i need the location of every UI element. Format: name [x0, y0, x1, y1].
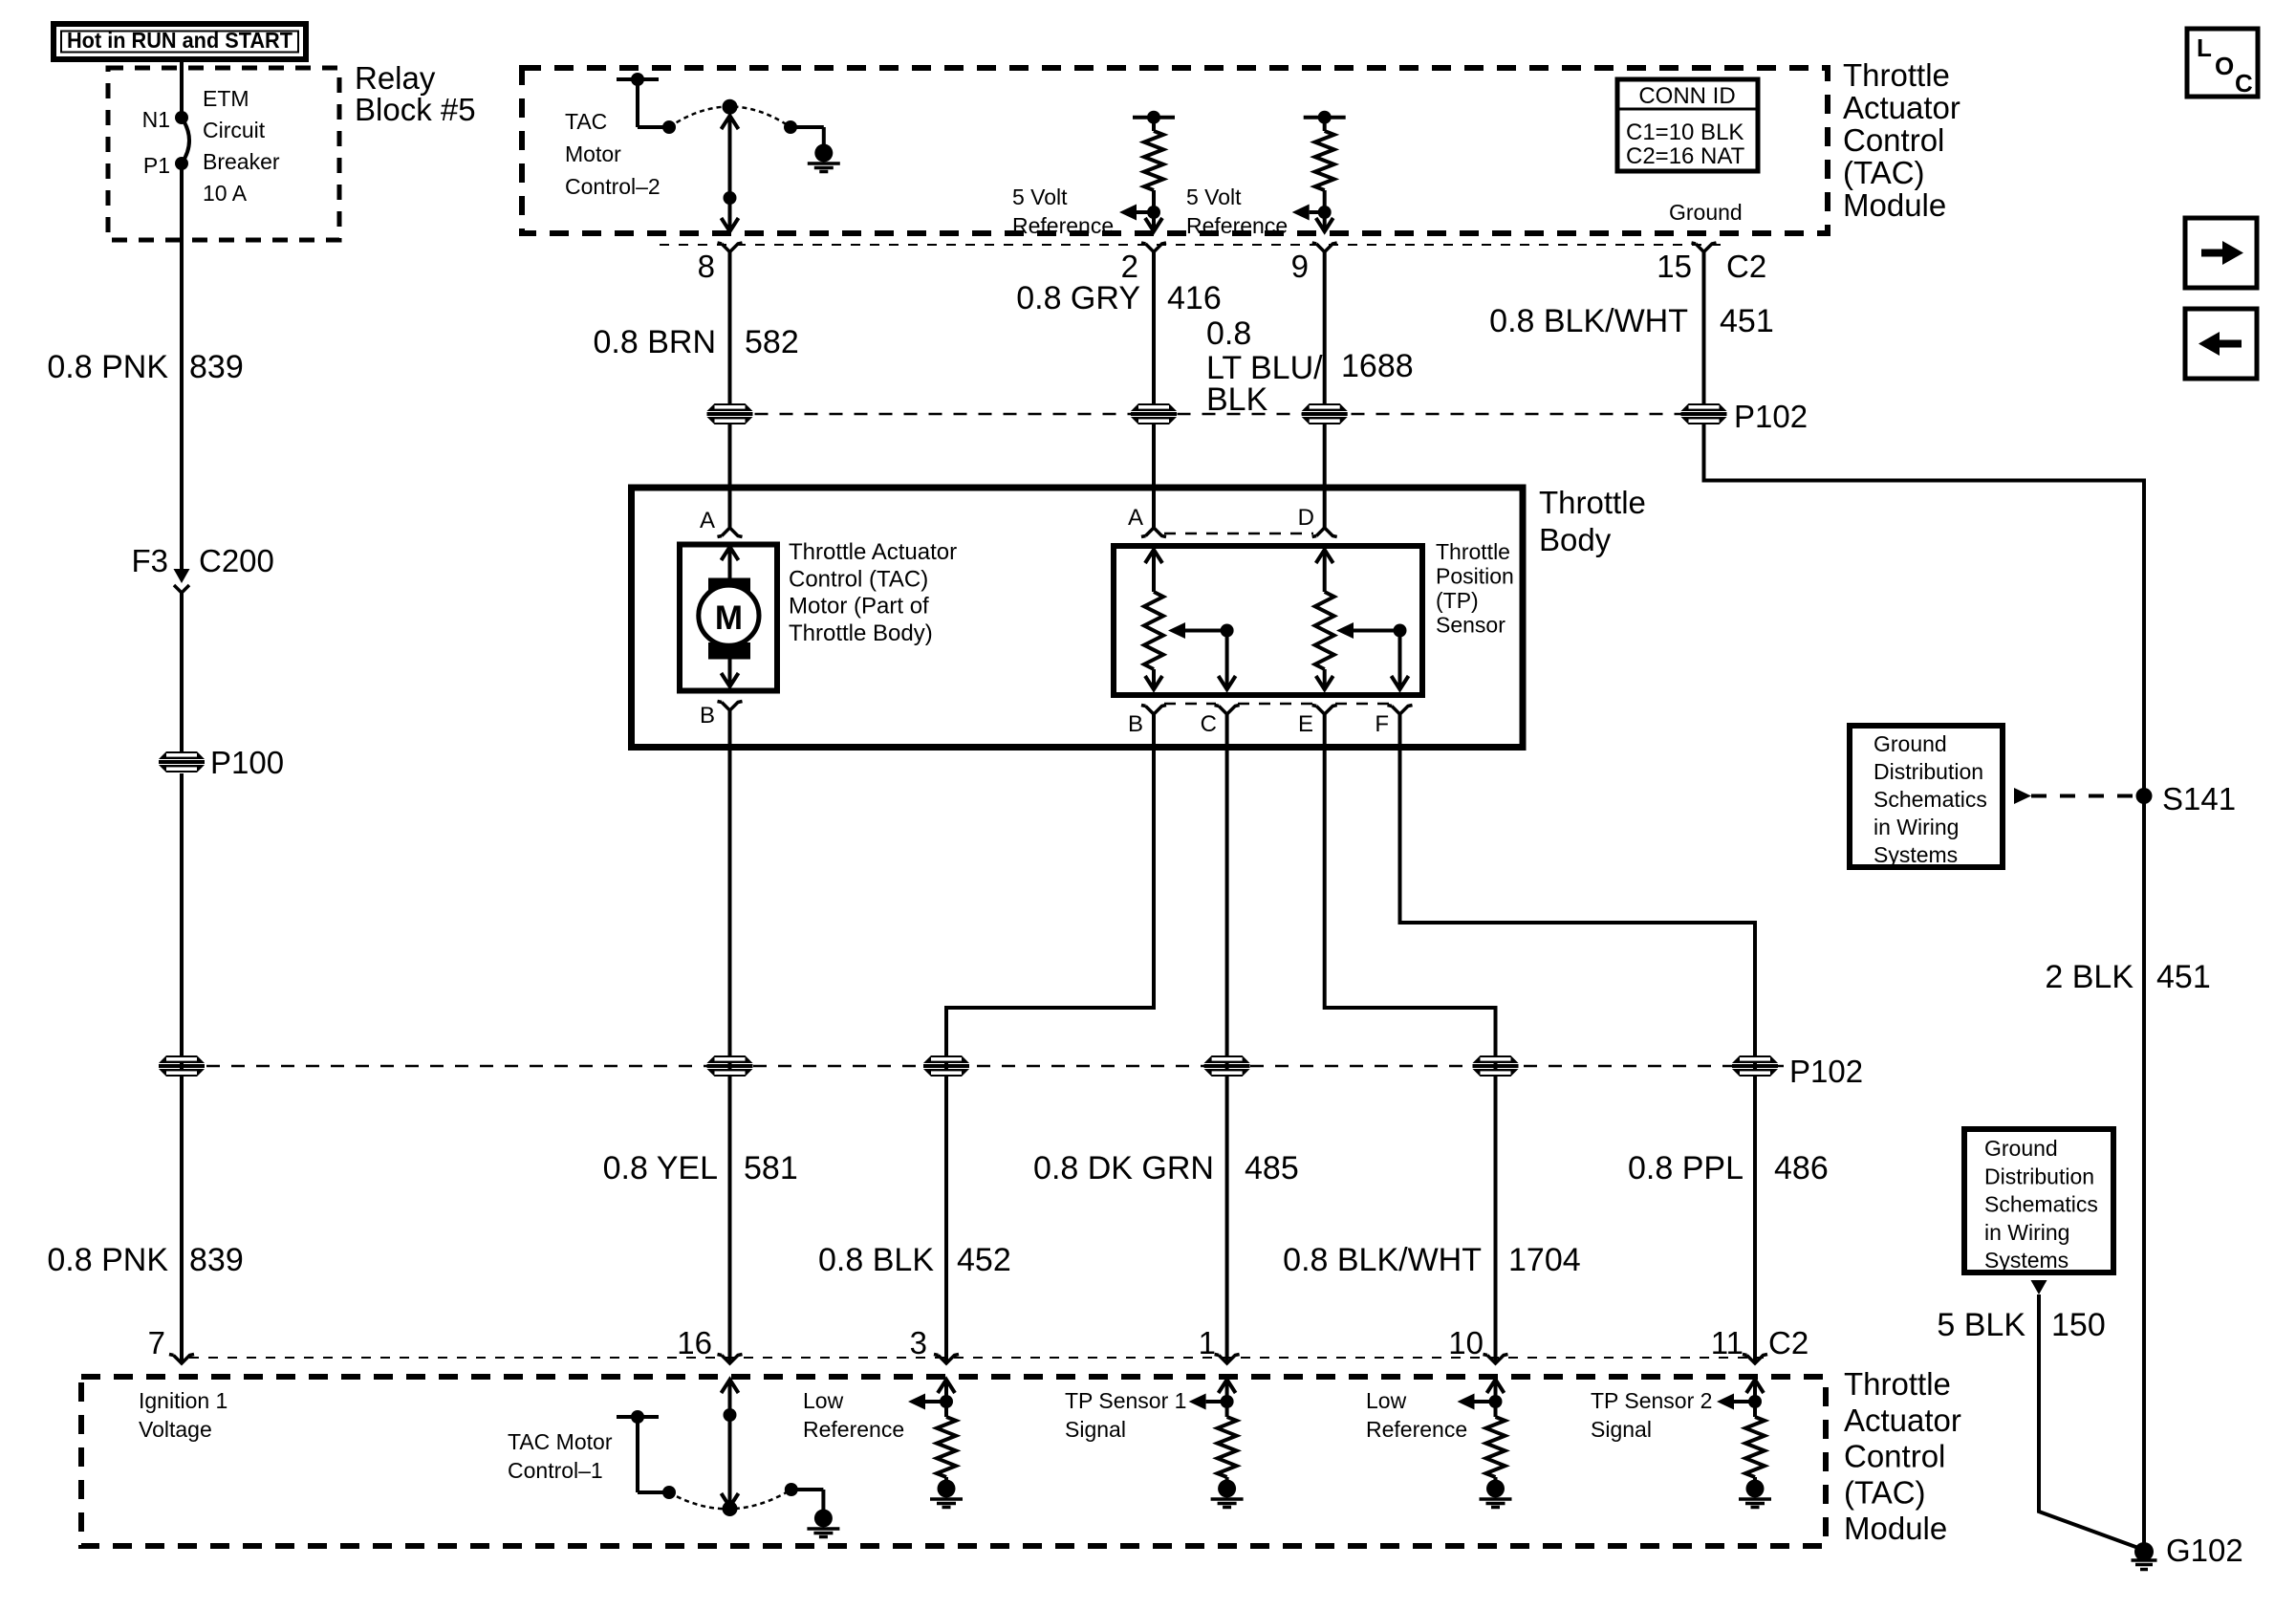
svg-text:(TP): (TP): [1436, 588, 1479, 613]
pin 1: [1199, 1325, 1240, 1363]
wire label 2 BLK 451: [2045, 959, 2210, 995]
motor M circle: [699, 585, 759, 645]
pin 10: [1448, 1325, 1507, 1363]
svg-text:M: M: [715, 599, 743, 637]
svg-text:11: 11: [1711, 1325, 1744, 1360]
svg-text:Body: Body: [1539, 522, 1612, 557]
svg-text:P102: P102: [1734, 399, 1808, 434]
grommet P102 row 2 on wire x=190: [159, 1055, 205, 1077]
svg-text:451: 451: [2156, 959, 2211, 995]
label 5 Volt Reference (pin 9): [1186, 185, 1288, 238]
ground G102: [2132, 1533, 2243, 1570]
svg-text:Control: Control: [1843, 122, 1944, 158]
svg-text:Hot in RUN and START: Hot in RUN and START: [67, 28, 292, 53]
svg-text:Systems: Systems: [1984, 1248, 2069, 1273]
wire 0.8 DK GRN 485 (TP C down to pin 1): [1225, 714, 1229, 1363]
pin B (motor): [700, 702, 743, 729]
label Ignition 1 Voltage (pin 7 internal): [139, 1388, 227, 1442]
svg-text:C: C: [1201, 711, 1217, 737]
svg-text:5 BLK: 5 BLK: [1937, 1307, 2025, 1343]
svg-text:O: O: [2215, 52, 2234, 80]
connector line C2 (top module, thin dashed): [660, 244, 1725, 246]
svg-text:Low: Low: [1366, 1388, 1407, 1413]
svg-text:P100: P100: [210, 745, 284, 780]
wire pin 16 internal double arrow: [722, 1380, 739, 1507]
ground (internal) at x=1283.6: [1211, 1480, 1244, 1508]
svg-text:Reference: Reference: [1366, 1417, 1467, 1442]
motor brush (top): [708, 578, 750, 595]
svg-text:Control–1: Control–1: [508, 1458, 603, 1483]
svg-text:Distribution: Distribution: [1874, 759, 1983, 784]
svg-text:Circuit: Circuit: [203, 118, 266, 142]
wire 0.8 PPL 486 (TP F jogs right, down to pin 11): [1400, 714, 1756, 1363]
svg-text:C2: C2: [1726, 249, 1766, 284]
svg-text:Ground: Ground: [1984, 1136, 2058, 1161]
resistor (internal) at x=990: [937, 1402, 956, 1480]
wire 0.8 BRN 582 (pin 8 to P102): [728, 252, 732, 404]
legend box right arrow: [2185, 218, 2257, 288]
Ground Distribution Schematics box (lower): [1964, 1129, 2113, 1273]
svg-text:N1: N1: [142, 107, 170, 132]
svg-text:B: B: [1128, 711, 1143, 737]
svg-text:Ground: Ground: [1669, 200, 1743, 225]
svg-text:Schematics: Schematics: [1874, 787, 1987, 812]
svg-text:5 Volt: 5 Volt: [1012, 185, 1068, 209]
wire label 0.8 YEL 581: [603, 1150, 798, 1186]
power source label box "Hot in RUN and START": [54, 24, 306, 59]
svg-text:Position: Position: [1436, 564, 1514, 589]
grommet P100: [159, 745, 284, 780]
svg-text:TAC Motor: TAC Motor: [508, 1429, 613, 1454]
svg-text:in Wiring: in Wiring: [1984, 1220, 2069, 1245]
svg-text:15: 15: [1657, 249, 1692, 284]
svg-text:Reference: Reference: [1186, 213, 1288, 238]
svg-text:(TAC): (TAC): [1843, 155, 1925, 190]
label Low Reference (pin 10): [1366, 1388, 1467, 1442]
svg-text:C2=16 NAT: C2=16 NAT: [1626, 143, 1745, 169]
grommet P102 on wire 9: [1302, 403, 1348, 424]
wire 5 BLK 150 (to G102): [2031, 1280, 2139, 1548]
wire 0.8 BLK 452 (TP B jogs left, down to pin 3): [946, 714, 1154, 1363]
label Throttle Actuator Control (TAC) Motor: [789, 539, 957, 646]
ground (internal) at x=1836: [1739, 1480, 1771, 1508]
CONN ID table box: [1617, 79, 1758, 171]
wire (P102 to TP pin D): [1323, 424, 1327, 528]
wire PNK from Hot box into breaker: [180, 58, 184, 118]
potentiometer TP1 (element): [1144, 550, 1163, 689]
svg-text:0.8 BRN: 0.8 BRN: [594, 324, 717, 360]
svg-text:Reference: Reference: [803, 1417, 904, 1442]
wire pin 8 internal double arrow: [722, 116, 739, 231]
svg-text:0.8 PNK: 0.8 PNK: [47, 349, 168, 385]
label 5 Volt Reference (pin 2): [1012, 185, 1114, 238]
svg-text:486: 486: [1774, 1150, 1829, 1186]
pin 3: [910, 1325, 959, 1363]
svg-text:TP Sensor 2: TP Sensor 2: [1591, 1388, 1712, 1413]
label P102 (row 2): [1789, 1054, 1863, 1089]
resistor (internal) at x=1836: [1745, 1402, 1765, 1480]
svg-text:0.8 BLK/WHT: 0.8 BLK/WHT: [1489, 303, 1688, 339]
svg-text:2: 2: [1121, 249, 1138, 284]
wire pin internal arrow at x=1836: [1717, 1380, 1764, 1410]
svg-text:0.8 BLK/WHT: 0.8 BLK/WHT: [1283, 1242, 1482, 1278]
svg-text:16: 16: [677, 1325, 712, 1360]
svg-text:581: 581: [744, 1150, 798, 1186]
svg-text:150: 150: [2051, 1307, 2106, 1343]
svg-text:0.8 YEL: 0.8 YEL: [603, 1150, 718, 1186]
svg-text:Breaker: Breaker: [203, 149, 280, 174]
wire pin internal arrow at x=990: [908, 1380, 955, 1410]
splice node S141: [2136, 781, 2237, 816]
svg-text:D: D: [1298, 505, 1314, 531]
grommet P102 row 2 on wire x=990: [923, 1055, 969, 1077]
resistor 5V reference pull-up at pin 2: [1119, 111, 1175, 231]
svg-text:582: 582: [745, 324, 799, 360]
svg-text:Signal: Signal: [1065, 1417, 1126, 1442]
pin 15 / C2: [1657, 243, 1766, 284]
svg-text:10: 10: [1448, 1325, 1484, 1360]
LOC legend box: [2187, 29, 2258, 98]
pin D (TP sensor): [1298, 505, 1337, 537]
svg-text:G102: G102: [2166, 1533, 2243, 1568]
grommet P102 row 2 on wire x=763.5: [707, 1055, 753, 1077]
label TP Sensor 2 Signal (pin 11): [1591, 1388, 1712, 1442]
relay block #5 dashed box: [108, 68, 339, 240]
svg-text:1688: 1688: [1341, 348, 1414, 384]
potentiometer TP2 (element): [1315, 550, 1334, 689]
pin B (TP sensor): [1128, 706, 1166, 738]
label Throttle Position (TP) Sensor: [1436, 539, 1514, 638]
svg-text:Throttle Actuator: Throttle Actuator: [789, 539, 957, 565]
motor M (TAC motor) box: [680, 545, 777, 691]
ground (internal) at x=1564.5: [1480, 1480, 1512, 1508]
svg-text:in Wiring: in Wiring: [1874, 815, 1959, 839]
svg-text:0.8 DK GRN: 0.8 DK GRN: [1033, 1150, 1214, 1186]
wire 0.8 LT BLU/BLK 1688 (pin 9 down): [1323, 252, 1327, 404]
wire label 0.8 PPL 486: [1628, 1150, 1829, 1186]
svg-text:Throttle: Throttle: [1844, 1366, 1951, 1402]
svg-text:Control–2: Control–2: [565, 174, 661, 199]
svg-text:C200: C200: [199, 543, 274, 578]
svg-text:Throttle: Throttle: [1436, 539, 1510, 564]
svg-text:S141: S141: [2162, 781, 2236, 816]
potentiometer TP1 wiper: [1168, 622, 1236, 689]
svg-text:0.8 PNK: 0.8 PNK: [47, 1242, 168, 1278]
svg-text:1: 1: [1199, 1325, 1216, 1360]
svg-text:A: A: [1128, 505, 1143, 531]
label P102 (row 1): [1734, 399, 1808, 434]
svg-text:C2: C2: [1768, 1325, 1809, 1360]
switch TAC Motor Control-1: [508, 1410, 823, 1516]
Throttle Actuator Control (TAC) Module dashed box (bottom): [81, 1377, 1826, 1546]
resistor (internal) at x=1564.5: [1486, 1402, 1505, 1480]
svg-text:Ignition 1: Ignition 1: [139, 1388, 227, 1413]
wire label 0.8 BLK/WHT 1704: [1283, 1242, 1580, 1278]
svg-text:0.8 GRY: 0.8 GRY: [1016, 280, 1140, 316]
pin 2: [1121, 243, 1166, 284]
pin 11 / C2: [1711, 1325, 1809, 1363]
wire label 5 BLK 150: [1937, 1307, 2105, 1343]
connector line C2 (bottom module, thin dashed): [189, 1357, 1764, 1359]
pin C (TP sensor): [1201, 706, 1240, 738]
pin F (TP sensor): [1375, 706, 1412, 738]
wire label 0.8 BLK 452: [818, 1242, 1011, 1278]
connector dashes between TP pins A and D: [1164, 533, 1313, 535]
svg-text:L: L: [2197, 33, 2212, 62]
svg-text:0.8 PPL: 0.8 PPL: [1628, 1150, 1744, 1186]
svg-text:Actuator: Actuator: [1843, 90, 1960, 125]
potentiometer TP2 wiper: [1336, 622, 1409, 689]
label Relay Block #5: [355, 60, 476, 127]
svg-text:Motor: Motor: [565, 141, 621, 166]
svg-text:P102: P102: [1789, 1054, 1863, 1089]
ground (inside top TAC module): [808, 144, 840, 172]
svg-text:Throttle: Throttle: [1843, 57, 1950, 93]
svg-text:839: 839: [189, 349, 244, 385]
grommet P102 on wire 8: [707, 403, 753, 424]
svg-text:Sensor: Sensor: [1436, 613, 1505, 638]
connector dashes between TP pins B C E F: [1164, 703, 1389, 706]
grommet P102 row 2 on wire x=1564.5: [1473, 1055, 1519, 1077]
wire 2 BLK 451 (P102 to S141 to G102): [1704, 424, 2145, 1552]
wire label 0.8 BRN 582: [594, 324, 799, 360]
svg-text:Relay: Relay: [355, 60, 436, 96]
svg-text:B: B: [700, 703, 715, 729]
wire 0.8 PNK 839 (P100 to bottom module pin 7): [180, 773, 184, 1363]
label TP Sensor 1 Signal (pin 1): [1065, 1388, 1186, 1442]
label Throttle Body: [1539, 485, 1646, 557]
label Throttle Actuator Control (TAC) Module (top right): [1843, 57, 1960, 223]
pin A (motor): [700, 508, 743, 537]
ground (internal) at x=990: [930, 1480, 963, 1508]
wire pin internal arrow at x=1283.6: [1189, 1380, 1236, 1410]
wire 0.8 BLK/WHT 1704 (TP E jogs right, down to pin 10): [1325, 714, 1496, 1363]
connector P102 pass-through row 1 (dashed): [730, 413, 1722, 416]
resistor (internal) at x=1283.6: [1218, 1402, 1237, 1480]
svg-text:Ground: Ground: [1874, 731, 1947, 756]
svg-text:452: 452: [957, 1242, 1011, 1278]
circuit breaker ETM 10A (arc): [182, 86, 280, 206]
wire (C200 to P100): [180, 593, 184, 752]
svg-text:451: 451: [1720, 303, 1774, 339]
pin 9: [1291, 243, 1337, 284]
svg-text:Throttle Body): Throttle Body): [789, 620, 933, 646]
pin 16: [677, 1325, 742, 1363]
node N1: [142, 107, 188, 132]
switch TAC Motor Control-2: [565, 73, 824, 199]
wire (P102 to motor pin A): [728, 424, 732, 528]
svg-text:Low: Low: [803, 1388, 844, 1413]
wire pin internal arrow at x=1564.5: [1458, 1380, 1505, 1410]
wire (P102 to TP pin A): [1152, 424, 1156, 528]
pin 8: [698, 243, 743, 284]
Ground Distribution Schematics box (upper): [1850, 726, 2003, 867]
connector C200 (F3): [131, 543, 273, 593]
Throttle Position (TP) Sensor box: [1114, 546, 1422, 695]
Throttle Body box: [632, 488, 1524, 748]
svg-text:Motor (Part of: Motor (Part of: [789, 594, 929, 620]
svg-text:Throttle: Throttle: [1539, 485, 1646, 520]
connector P102 pass-through row 2 (dashed): [182, 1065, 1784, 1068]
wire 0.8 BLK/WHT 451 (pin 15 down): [1702, 252, 1706, 404]
svg-text:CONN ID: CONN ID: [1638, 83, 1735, 109]
node P1: [143, 153, 188, 178]
grommet P102 row 2 on wire x=1836: [1732, 1055, 1778, 1077]
wire label 0.8 BLK/WHT 451: [1489, 303, 1774, 339]
label Ground (pin 15 internal): [1669, 200, 1743, 225]
svg-text:9: 9: [1291, 249, 1309, 284]
svg-text:8: 8: [698, 249, 715, 284]
svg-text:7: 7: [148, 1325, 165, 1360]
svg-text:E: E: [1298, 711, 1313, 737]
svg-text:Module: Module: [1843, 187, 1946, 223]
svg-text:TP Sensor 1: TP Sensor 1: [1065, 1388, 1186, 1413]
wire label 0.8 GRY 416: [1016, 280, 1222, 316]
svg-text:P1: P1: [143, 153, 170, 178]
wire 0.8 PNK 839 (breaker to C200): [180, 163, 184, 570]
grommet P102 on wire 15: [1681, 403, 1727, 424]
svg-text:TAC: TAC: [565, 109, 607, 134]
svg-text:C1=10 BLK: C1=10 BLK: [1626, 120, 1744, 145]
motor internal lead B (arrow down): [722, 660, 739, 687]
svg-text:Module: Module: [1844, 1511, 1947, 1546]
svg-text:2 BLK: 2 BLK: [2045, 959, 2134, 995]
wire 0.8 GRY 416 (pin 2 down): [1152, 252, 1156, 404]
svg-text:485: 485: [1245, 1150, 1299, 1186]
grommet P102 row 2 on wire x=1283.6: [1204, 1055, 1250, 1077]
wire label 0.8 LT BLU/BLK 1688: [1206, 315, 1414, 418]
svg-text:F: F: [1375, 711, 1389, 737]
svg-text:Schematics: Schematics: [1984, 1192, 2098, 1217]
legend box left arrow: [2185, 309, 2257, 379]
svg-text:(TAC): (TAC): [1844, 1474, 1926, 1510]
svg-text:ETM: ETM: [203, 86, 249, 111]
svg-text:3: 3: [910, 1325, 927, 1360]
svg-text:1704: 1704: [1508, 1242, 1581, 1278]
svg-text:839: 839: [189, 1242, 244, 1278]
svg-text:Reference: Reference: [1012, 213, 1114, 238]
svg-text:416: 416: [1167, 280, 1222, 316]
pin A (TP sensor): [1128, 505, 1166, 537]
wire label 0.8 PNK 839 (lower): [47, 1242, 243, 1278]
svg-text:C: C: [2235, 69, 2253, 98]
svg-text:A: A: [700, 508, 715, 533]
svg-text:Signal: Signal: [1591, 1417, 1652, 1442]
resistor 5V reference pull-up at pin 9: [1292, 111, 1346, 231]
svg-text:Systems: Systems: [1874, 842, 1958, 867]
svg-text:Voltage: Voltage: [139, 1417, 212, 1442]
motor brush (bottom): [708, 642, 750, 660]
pin 7: [148, 1325, 194, 1363]
wire 0.8 YEL 581 (motor B down to pin 16): [728, 710, 732, 1363]
pin E (TP sensor): [1298, 706, 1337, 738]
ground (inside bottom TAC module, control-1): [807, 1510, 839, 1537]
svg-text:BLK: BLK: [1206, 381, 1268, 418]
Throttle Actuator Control (TAC) Module dashed box (top): [522, 68, 1828, 233]
grommet P102 on wire 2: [1131, 403, 1177, 424]
svg-text:Control (TAC): Control (TAC): [789, 566, 928, 592]
label Throttle Actuator Control (TAC) Module (bottom right): [1844, 1366, 1961, 1546]
svg-text:Actuator: Actuator: [1844, 1403, 1961, 1438]
svg-text:Control: Control: [1844, 1439, 1945, 1474]
svg-text:10 A: 10 A: [203, 181, 248, 206]
motor internal lead A (arrow up): [722, 547, 739, 579]
svg-text:0.8: 0.8: [1206, 315, 1251, 352]
reference arrow (to S141, dashed): [2014, 788, 2137, 804]
svg-text:0.8 BLK: 0.8 BLK: [818, 1242, 934, 1278]
svg-text:Block #5: Block #5: [355, 92, 476, 127]
wire label 0.8 PNK 839: [47, 349, 243, 385]
wire label 0.8 DK GRN 485: [1033, 1150, 1299, 1186]
svg-text:Distribution: Distribution: [1984, 1164, 2094, 1188]
label Low Reference (pin 3): [803, 1388, 904, 1442]
svg-text:5 Volt: 5 Volt: [1186, 185, 1242, 209]
svg-text:F3: F3: [131, 543, 168, 578]
